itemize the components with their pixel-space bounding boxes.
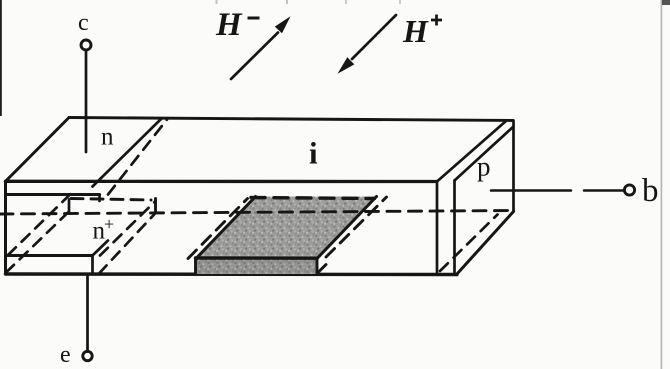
svg-text:c: c — [78, 10, 89, 36]
arrow H+ shaft — [352, 15, 396, 59]
shaded block back-top edge dashed — [251, 198, 375, 199]
bar front-left vertical edge — [4, 181, 7, 274]
wire c lead — [85, 51, 88, 153]
n layer bottom line on front face — [6, 193, 100, 196]
svg-text:n: n — [101, 124, 114, 151]
arrow H+ head — [338, 57, 355, 74]
bar bottom-front edge — [6, 272, 458, 276]
n+ hidden bottom-left slant dashed — [6, 211, 70, 273]
bar top-front edge — [6, 180, 438, 183]
bar top-left slant edge — [6, 118, 70, 182]
bar bottom-right slant edge — [457, 212, 514, 275]
shaded block outer right dashed slant — [326, 197, 387, 257]
terminal c ring — [81, 40, 91, 50]
wire b lead dashed — [491, 189, 623, 192]
label H+ plus sign — [431, 15, 442, 26]
n+ slab top-right solid slant — [93, 241, 108, 256]
n+ slab right vertical edge — [91, 256, 94, 274]
shaded block front-top edge — [196, 256, 318, 260]
svg-text:H: H — [402, 13, 429, 49]
shaded block top-left slant edge solid — [196, 197, 256, 259]
n+ hidden top-left slant dashed — [8, 194, 71, 256]
shaded block outer left dashed slant — [188, 199, 248, 259]
svg-text:e: e — [60, 342, 71, 368]
shaded block front face — [196, 259, 317, 275]
bar back-right vertical edge — [512, 121, 515, 212]
svg-text:p: p — [477, 152, 491, 182]
n region boundary slant solid — [93, 119, 162, 187]
bar hidden back-bottom edge long dashed line — [0, 211, 512, 215]
label H- minus sign — [248, 17, 260, 20]
n layer step vertical — [98, 195, 101, 202]
bar front-right vertical edge — [453, 181, 456, 275]
p boundary vertical on front face — [436, 182, 439, 274]
arrow H- shaft — [231, 33, 278, 80]
wire e lead — [86, 274, 89, 352]
n region boundary slant dashed — [108, 120, 167, 195]
svg-text:i: i — [309, 136, 318, 171]
scan artifact left black edge — [0, 0, 2, 116]
shaded block top face — [196, 197, 377, 259]
svg-text:+: + — [104, 214, 114, 234]
shaded block front-left vertical edge — [194, 258, 197, 275]
n+ hidden bottom-right slant dashed — [99, 213, 156, 274]
n+ hidden top-right slant dashed — [100, 201, 156, 256]
bar top-back edge — [69, 118, 513, 121]
n+ hidden top-back edge dashed — [71, 199, 151, 201]
n+ slab top-front edge — [6, 254, 93, 257]
shaded block top-right slant edge solid — [317, 197, 377, 259]
bar top-right slant edge — [455, 127, 514, 181]
scan artifact right gray line — [661, 0, 663, 369]
shaded block bottom-right mini slant — [317, 265, 326, 274]
terminal e ring — [83, 351, 92, 360]
svg-text:b: b — [642, 173, 659, 209]
scan artifact top-right corner mark — [662, 0, 670, 5]
svg-text:H: H — [215, 7, 243, 43]
arrow H- head — [275, 16, 291, 33]
p boundary slant on top face — [437, 121, 506, 182]
n+ hidden back-right vertical dashed — [154, 199, 157, 212]
scan artifact faint top ticks — [216, 0, 218, 4]
terminal b ring — [624, 185, 634, 195]
n+ hidden back-left vertical — [68, 200, 71, 213]
p hidden boundary slant dashed — [440, 215, 498, 272]
shaded block front-right vertical edge — [316, 258, 319, 273]
